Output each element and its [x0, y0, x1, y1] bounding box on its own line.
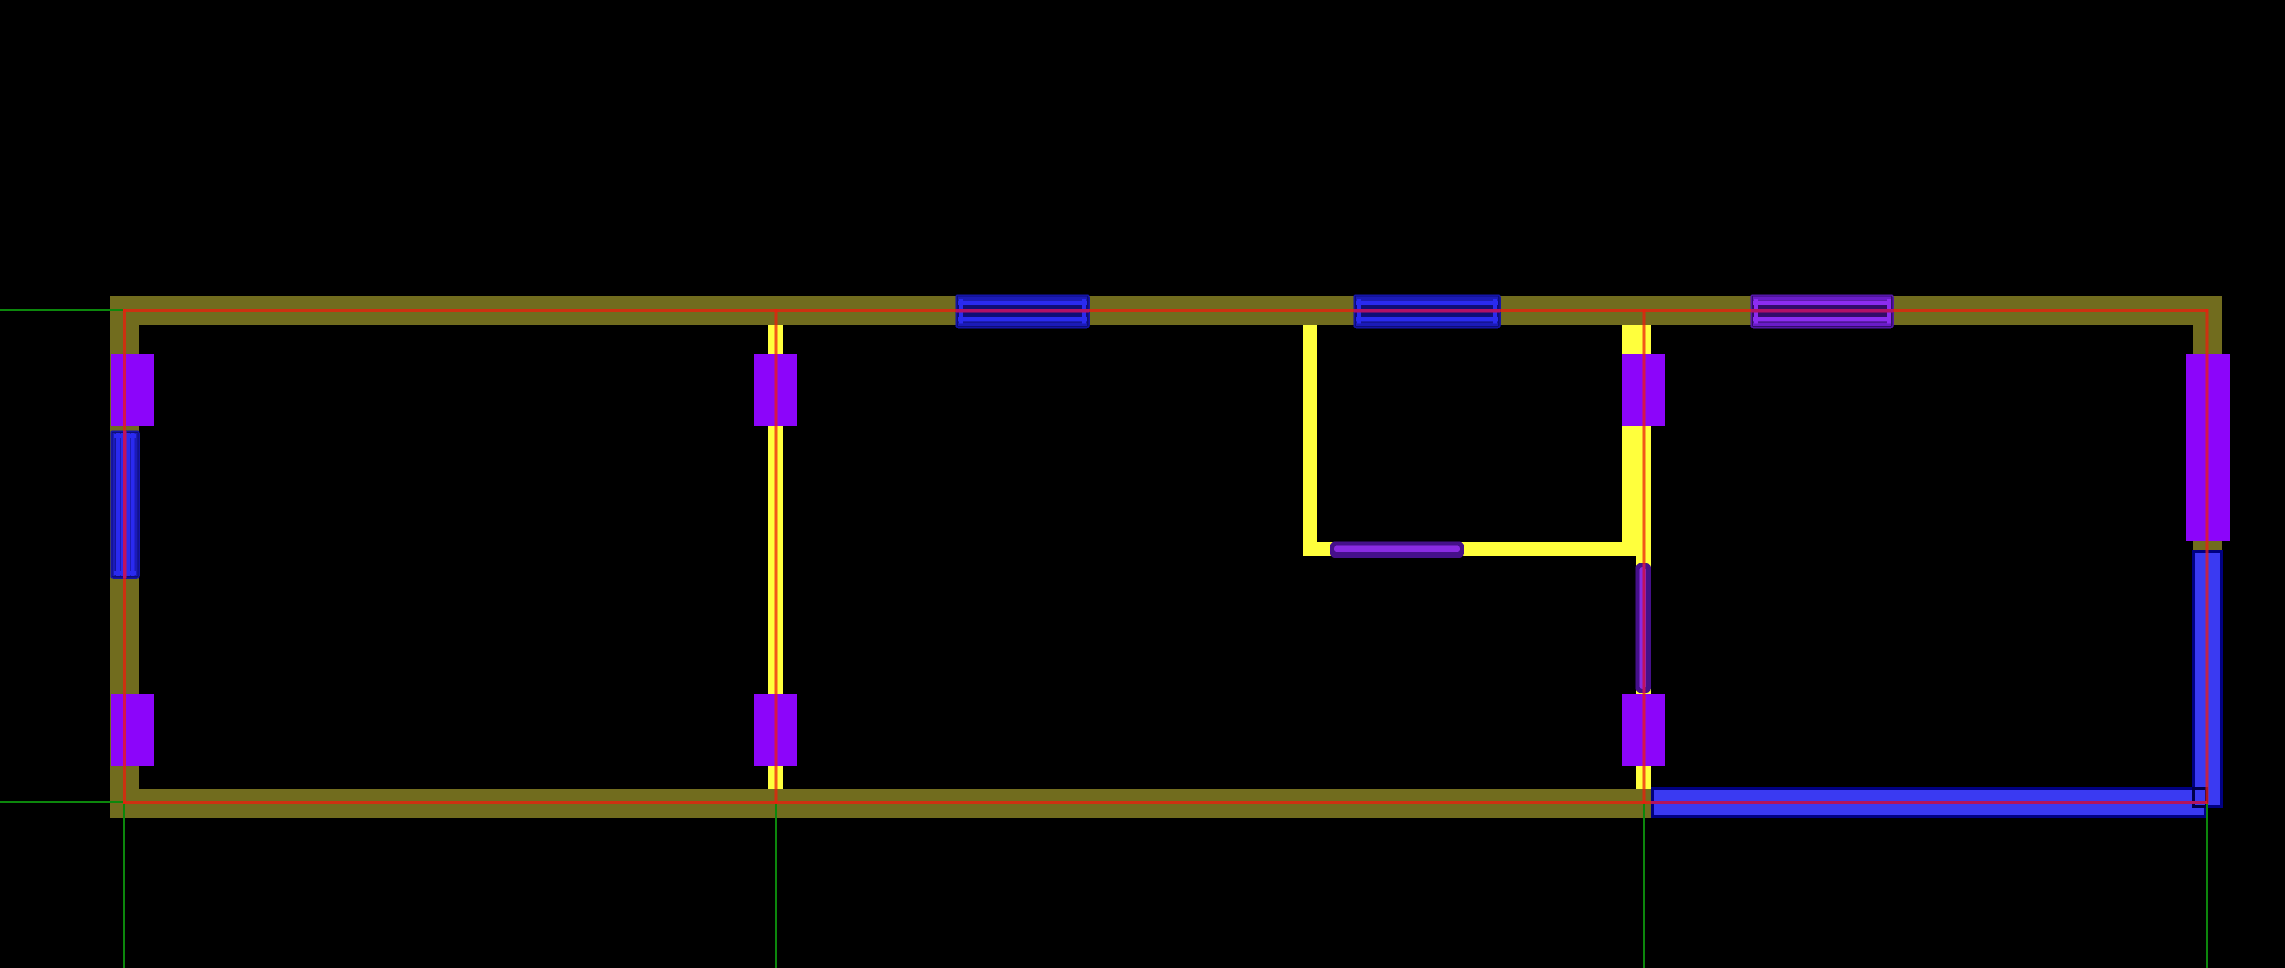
column C3 (wall A top): [754, 354, 797, 426]
door D1 (room bottom wall): [1330, 542, 1464, 559]
red axis line x=1644: [1643, 309, 1646, 804]
wall left (olive exterior wall): [110, 296, 139, 818]
grid line green horizontal at y=802: [0, 801, 123, 803]
wall right small segment (olive): [2193, 541, 2222, 550]
partition wall lower (yellow, below room): [1636, 556, 1651, 789]
window W2 (top wall, blue): [1354, 295, 1500, 328]
red axis bottom line y=802: [123, 801, 2207, 804]
room wall right upper (yellow thick): [1622, 325, 1651, 542]
grid line green vertical at x=2207: [2206, 803, 2208, 968]
red axis top line y=310: [123, 309, 2208, 313]
window W3 (top wall, purple): [1751, 295, 1893, 328]
red axis line x=776: [775, 309, 778, 804]
wall bottom (olive exterior wall): [110, 789, 1651, 818]
grid line green vertical at x=1644: [1643, 803, 1645, 968]
partition wall A (yellow, vertical x=776): [768, 325, 783, 789]
column C1 (left wall top): [111, 354, 154, 426]
glazed band bottom (blue): [1651, 787, 2207, 818]
room wall left (yellow vertical): [1303, 325, 1317, 556]
red axis left line x=124: [123, 309, 127, 804]
column C6 (room wall bottom): [1622, 694, 1665, 766]
glazed band right (blue): [2192, 550, 2223, 808]
wall top (olive exterior wall): [110, 296, 2222, 325]
column C7 (right wall tall): [2186, 354, 2230, 541]
grid line green vertical at x=776: [775, 803, 777, 968]
wall right upper segment (olive): [2193, 296, 2222, 354]
grid line green vertical at x=124: [123, 803, 125, 968]
grid line green horizontal at y=310: [0, 309, 123, 311]
column C2 (left wall bottom): [111, 694, 154, 766]
column C5 (room wall top): [1622, 354, 1665, 426]
window W4 (left wall, blue vertical): [111, 431, 139, 578]
column C4 (wall A bottom): [754, 694, 797, 766]
junction square (dark outline): [2194, 789, 2207, 807]
room wall bottom (yellow horizontal): [1303, 542, 1651, 556]
window W1 (top wall, blue): [956, 295, 1089, 328]
door D2 (lower partition wall): [1636, 563, 1652, 693]
red axis right line x=2207: [2206, 309, 2209, 804]
